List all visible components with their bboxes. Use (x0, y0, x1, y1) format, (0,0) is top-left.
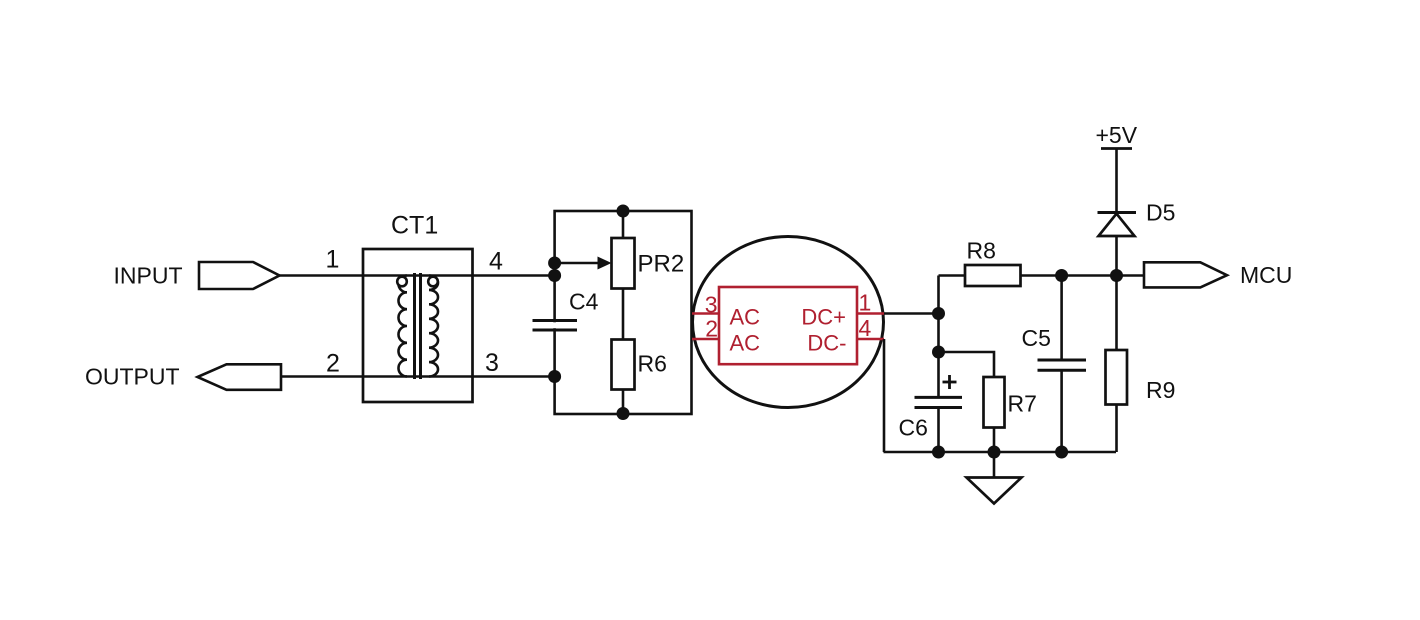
svg-text:MCU: MCU (1240, 262, 1292, 288)
ground (993, 452, 996, 478)
svg-text:INPUT: INPUT (114, 263, 183, 289)
wire R9 top lead (1115, 276, 1118, 351)
capacitor C5 (1038, 359, 1087, 362)
wire C5 top lead (1060, 276, 1063, 361)
junction dot C5 top (1055, 269, 1068, 282)
wire R9 bottom lead (1115, 405, 1118, 453)
svg-text:C4: C4 (569, 289, 599, 315)
port MCU connector (1144, 262, 1227, 287)
junction dot pin4 row (548, 269, 561, 282)
transformer CT1 secondary winding (429, 276, 438, 377)
port INPUT connector (199, 262, 280, 289)
port OUTPUT connector (198, 364, 282, 390)
svg-text:R9: R9 (1146, 377, 1175, 403)
svg-text:1: 1 (859, 290, 872, 316)
potentiometer PR2 (612, 238, 635, 289)
svg-text:CT1: CT1 (391, 212, 438, 240)
resistor R6 (612, 340, 635, 390)
wire INPUT to CT1 primary (top row) (279, 274, 555, 277)
bridge rectifier B1 circle (693, 237, 884, 408)
svg-text:3: 3 (485, 349, 499, 377)
power +5V bar (1101, 147, 1132, 150)
wire main positive vertical (937, 276, 940, 398)
svg-text:R6: R6 (638, 351, 667, 377)
junction dot rail C5 (1055, 446, 1068, 459)
diode D5 cathode bar (1098, 211, 1137, 214)
svg-text:DC+: DC+ (801, 305, 846, 330)
svg-text:C6: C6 (899, 415, 928, 441)
wire R7 bottom lead (993, 428, 996, 453)
resistor R7 (984, 377, 1005, 428)
svg-text:4: 4 (859, 315, 872, 341)
wire bridge DC+ to node (884, 312, 939, 315)
wire D5 to node (1115, 236, 1118, 276)
junction dot R7 branch (932, 346, 945, 359)
transformer CT1 phase dot primary (397, 277, 407, 287)
wire wiper arrow to PR2 (555, 262, 599, 265)
svg-text:R8: R8 (967, 238, 996, 264)
wire R8 row (939, 274, 966, 277)
wire PR2 to R6 (622, 289, 625, 340)
svg-text:C5: C5 (1022, 325, 1051, 351)
bridge pin 1 stub (857, 312, 884, 315)
capacitor C6 plus sign (943, 381, 957, 384)
transformer CT1 box (363, 249, 473, 402)
junction dot R6 bottom (617, 407, 630, 420)
svg-text:R7: R7 (1008, 391, 1037, 417)
svg-text:OUTPUT: OUTPUT (85, 364, 180, 390)
svg-text:AC: AC (730, 305, 761, 330)
wire bridge DC- down to rail (883, 339, 886, 452)
bridge pin 3 stub (692, 312, 719, 315)
svg-text:PR2: PR2 (638, 251, 685, 278)
svg-text:+5V: +5V (1096, 122, 1138, 148)
junction dot rail ground (988, 446, 1001, 459)
svg-text:4: 4 (489, 248, 503, 276)
junction dot D5 node (1110, 269, 1123, 282)
bridge rectifier red body (719, 287, 857, 364)
wire +5V to D5 (1115, 149, 1118, 213)
svg-text:DC-: DC- (807, 331, 846, 356)
wire bottom rail (884, 451, 1117, 454)
resistor R9 (1106, 350, 1128, 405)
svg-text:D5: D5 (1146, 200, 1175, 226)
svg-text:AC: AC (730, 331, 761, 356)
bridge pin 2 stub (692, 338, 719, 341)
junction dot PR2 top (617, 205, 630, 218)
capacitor C6 plates (915, 396, 963, 399)
wire gap in box edge for C4 (553, 322, 557, 328)
junction dot DC+ node (932, 307, 945, 320)
junction dot pin3 row (548, 370, 561, 383)
transformer CT1 phase dot secondary (428, 277, 438, 287)
wire C5 bottom lead (1060, 370, 1063, 452)
svg-text:1: 1 (326, 246, 340, 274)
wire OUTPUT to CT1 secondary (bottom row) (281, 375, 555, 378)
svg-text:2: 2 (326, 350, 340, 378)
junction dot arrow branch (548, 257, 561, 270)
wire PR2 top lead (622, 211, 625, 238)
wire R6 bottom lead (622, 390, 625, 415)
diode D5 triangle (1099, 214, 1135, 236)
capacitor C4 (533, 319, 578, 322)
bridge pin 4 stub (857, 338, 884, 341)
svg-text:2: 2 (705, 316, 718, 342)
svg-text:3: 3 (705, 292, 718, 318)
transformer CT1 primary winding (398, 276, 407, 377)
wire branch to R7 (939, 352, 995, 377)
transformer CT1 core (413, 273, 416, 379)
wire R8 to MCU (1021, 274, 1145, 277)
resistor R8 (965, 265, 1021, 286)
node network box around C4 PR2 R6 (555, 211, 692, 414)
junction dot rail C6 (932, 446, 945, 459)
